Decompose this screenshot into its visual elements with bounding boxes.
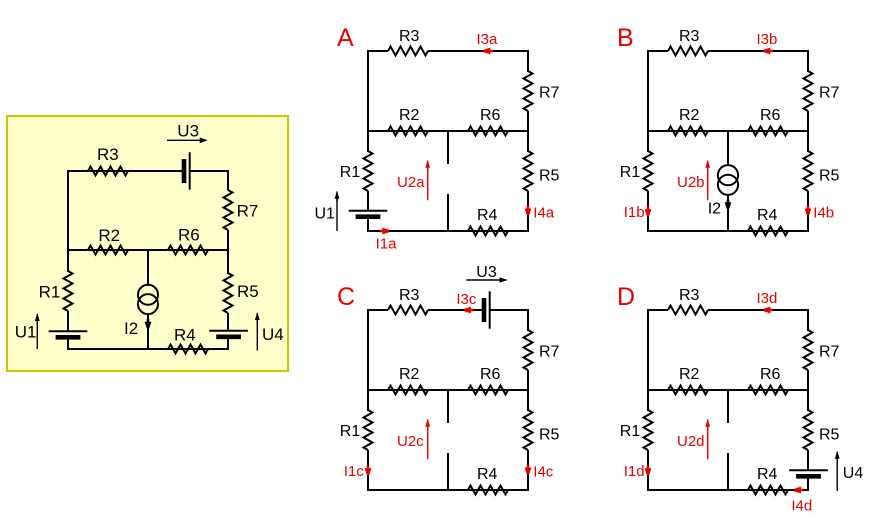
svg-text:R1: R1 — [39, 282, 61, 301]
svg-text:R3: R3 — [679, 28, 700, 45]
battery U3 (C) — [484, 291, 490, 328]
svg-text:R3: R3 — [679, 287, 700, 304]
svg-text:U3: U3 — [177, 122, 199, 141]
resistor R3 (A) — [388, 47, 428, 56]
arrow of U2c voltage — [425, 419, 430, 460]
middle horizontal wire (A) — [368, 130, 528, 132]
current source I2 (main) — [138, 285, 158, 314]
wire from R7 to middle node (C) — [527, 370, 529, 411]
arrow of U1 voltage (main) — [35, 313, 40, 349]
resistor R3 (C) — [388, 306, 428, 315]
bottom horizontal wire (B) — [647, 230, 809, 232]
resistor R5 (C) — [524, 410, 533, 450]
arrow of U1 voltage (A) — [335, 191, 340, 231]
top wire left segment (A) — [368, 50, 388, 52]
top wire right segment (B) — [708, 50, 809, 52]
wire from R7 to middle node (D) — [807, 370, 809, 411]
arrow of current I1d — [645, 466, 652, 476]
bottom horizontal wire (main) — [67, 348, 229, 350]
svg-text:R4: R4 — [757, 466, 778, 483]
resistor R3 (D) — [668, 306, 708, 315]
wire from U1 to bottom-left corner — [67, 340, 69, 350]
resistor R5 (main) — [224, 273, 233, 313]
wire below current source I2 (B) — [727, 195, 729, 231]
svg-text:R1: R1 — [620, 423, 641, 440]
svg-text:I2: I2 — [124, 319, 138, 338]
arrow of current I4d — [794, 487, 804, 494]
bottom horizontal wire (D) — [647, 489, 809, 491]
svg-text:R6: R6 — [178, 225, 200, 244]
arrow of U2d voltage — [705, 419, 710, 460]
right vertical wire from top corner to R7 — [227, 171, 229, 190]
svg-text:U2d: U2d — [677, 433, 705, 450]
svg-text:I1c: I1c — [344, 463, 365, 480]
resistor R1 (main) — [64, 271, 73, 311]
resistor R7 (A) — [524, 71, 533, 111]
resistor R7 (B) — [804, 71, 813, 111]
resistor R5 (B) — [804, 151, 813, 191]
wire from R7 to middle node (B) — [807, 111, 809, 152]
svg-text:R4: R4 — [477, 466, 498, 483]
svg-text:I1b: I1b — [624, 204, 645, 221]
svg-text:R3: R3 — [97, 145, 119, 164]
svg-text:R7: R7 — [539, 84, 560, 101]
middle horizontal wire (main) — [68, 249, 228, 251]
middle horizontal wire (B) — [648, 130, 808, 132]
middle horizontal wire (D) — [648, 389, 808, 391]
wire below current source I2 (main) — [147, 314, 149, 349]
arrow of U2a voltage — [425, 160, 430, 201]
middle branch lower stub, open circuit (C) — [447, 453, 449, 490]
resistor R7 (C) — [524, 330, 533, 370]
wire from R7 to middle node (main) — [227, 230, 229, 274]
svg-text:R6: R6 — [760, 366, 781, 383]
resistor R6 (D) — [748, 386, 788, 395]
svg-text:R7: R7 — [539, 343, 560, 360]
svg-text:R1: R1 — [340, 423, 361, 440]
battery U4 (main) — [209, 331, 248, 337]
battery U1 (main) — [49, 331, 88, 337]
svg-text:I4c: I4c — [533, 463, 554, 480]
resistor R2 (C) — [388, 386, 428, 395]
svg-text:I2: I2 — [708, 201, 721, 218]
wire from R7 to middle node (A) — [527, 111, 529, 152]
svg-text:R3: R3 — [399, 287, 420, 304]
middle branch lower stub, open circuit (D) — [727, 453, 729, 490]
left vertical wire top (C) — [367, 309, 369, 411]
arrow of current I4a — [525, 206, 532, 216]
arrow of current I1c — [365, 466, 372, 476]
svg-text:R6: R6 — [480, 107, 501, 124]
resistor R1 (D) — [644, 410, 653, 450]
resistor R6 (main) — [168, 246, 208, 255]
svg-text:R5: R5 — [819, 168, 840, 185]
wire top-left: node A1 to battery U3 — [68, 170, 184, 172]
right vertical wire bottom (C) — [527, 450, 529, 491]
resistor R1 (B) — [644, 151, 653, 191]
svg-text:U3: U3 — [476, 264, 497, 281]
svg-text:R2: R2 — [679, 366, 700, 383]
svg-text:I3d: I3d — [757, 290, 778, 307]
right vertical wire from top corner to R7 (D) — [807, 309, 809, 331]
wire from U4 to bottom-right corner — [227, 339, 229, 350]
top wire right segment (D) — [708, 309, 809, 311]
resistor R2 (main) — [88, 246, 128, 255]
wire from R5 to battery U4 (main) — [227, 313, 229, 331]
resistor R2 (B) — [668, 127, 708, 136]
resistor R6 (C) — [468, 386, 508, 395]
right vertical wire from top corner to R7 (C) — [527, 309, 529, 331]
top wire right segment (C) — [490, 309, 529, 311]
left vertical wire bottom (D) — [647, 450, 649, 491]
arrow of U2b voltage — [705, 160, 710, 201]
svg-text:R7: R7 — [237, 202, 259, 221]
top wire middle segment (C) — [428, 309, 484, 311]
top wire left segment (D) — [648, 309, 668, 311]
resistor R4 (main) — [168, 345, 208, 354]
svg-text:R7: R7 — [819, 343, 840, 360]
svg-text:U1: U1 — [315, 206, 336, 223]
arrow of U3 voltage (main) — [167, 138, 208, 144]
yellow panel background of main circuit — [7, 116, 288, 371]
left vertical wire top (B) — [647, 50, 649, 152]
right vertical wire from top corner to R7 (A) — [527, 50, 529, 72]
right vertical wire bottom (B) — [807, 191, 809, 232]
arrow of current I4b — [805, 206, 812, 216]
top wire left segment (B) — [648, 50, 668, 52]
battery U4 (D) — [789, 470, 828, 476]
middle branch upper stub, open circuit (C) — [447, 390, 449, 423]
wire from R1 to battery U1 (A) — [367, 191, 369, 211]
arrow of current I1b — [645, 207, 652, 217]
svg-text:I4b: I4b — [813, 204, 834, 221]
arrow of U3 voltage (C) — [466, 277, 507, 283]
resistor R4 (B) — [748, 227, 788, 236]
wire from U3 to top-right corner — [190, 170, 229, 172]
left vertical wire bottom (C) — [367, 450, 369, 491]
resistor R4 (C) — [468, 486, 508, 495]
middle branch upper stub, open circuit (A) — [447, 131, 449, 164]
wire from U4 to bottom-right corner (D) — [807, 479, 809, 491]
resistor R5 (A) — [524, 151, 533, 191]
arrow of current I2 (main) — [145, 319, 152, 329]
top wire right segment (A) — [428, 50, 529, 52]
svg-text:U4: U4 — [843, 465, 864, 482]
wire from U1 to bottom-left corner (A) — [367, 219, 369, 232]
middle branch wire from node to current source I2 (main) — [147, 250, 149, 286]
arrow of current I3d — [764, 307, 774, 314]
svg-text:U1: U1 — [15, 322, 37, 341]
svg-text:R1: R1 — [340, 164, 361, 181]
resistor R2 (A) — [388, 127, 428, 136]
svg-text:C: C — [337, 283, 355, 311]
svg-text:I1a: I1a — [376, 236, 398, 253]
svg-text:R2: R2 — [399, 366, 420, 383]
battery U3 (main) — [184, 152, 190, 189]
resistor R7 (main) — [224, 190, 233, 230]
left vertical wire top (A) — [367, 50, 369, 152]
resistor R6 (B) — [748, 127, 788, 136]
wire from R1 to battery U1 (main) — [67, 311, 69, 331]
svg-text:A: A — [337, 24, 354, 52]
svg-text:I3b: I3b — [757, 31, 778, 48]
resistor R5 (D) — [804, 410, 813, 450]
svg-text:U4: U4 — [262, 325, 284, 344]
svg-text:R2: R2 — [98, 226, 120, 245]
resistor R1 (A) — [364, 151, 373, 191]
svg-text:R6: R6 — [760, 107, 781, 124]
arrow of current I3b — [764, 48, 774, 55]
wire from R5 to battery U4 (D) — [807, 450, 809, 470]
svg-text:I4a: I4a — [533, 204, 555, 221]
resistor R3 (main) — [88, 167, 128, 176]
svg-text:I3c: I3c — [456, 291, 477, 308]
svg-text:R4: R4 — [174, 326, 196, 345]
left vertical wire bottom (B) — [647, 191, 649, 232]
resistor R4 (D) — [748, 486, 788, 495]
svg-text:R4: R4 — [477, 207, 498, 224]
svg-text:R5: R5 — [237, 282, 259, 301]
arrow of current I1a — [380, 228, 390, 235]
resistor R1 (C) — [364, 410, 373, 450]
svg-text:D: D — [617, 283, 635, 311]
resistor R6 (A) — [468, 127, 508, 136]
arrow of U4 voltage (D) — [835, 451, 840, 491]
bottom horizontal wire (A) — [367, 230, 529, 232]
middle branch upper stub, open circuit (D) — [727, 390, 729, 423]
svg-text:R4: R4 — [757, 207, 778, 224]
svg-text:I3a: I3a — [477, 31, 499, 48]
bottom horizontal wire (C) — [367, 489, 529, 491]
arrow of current I3c — [464, 307, 474, 314]
svg-text:U2c: U2c — [397, 433, 424, 450]
svg-text:R2: R2 — [679, 107, 700, 124]
battery U1 (A) — [349, 211, 388, 217]
svg-text:R7: R7 — [819, 84, 840, 101]
svg-text:B: B — [617, 24, 634, 52]
resistor R2 (D) — [668, 386, 708, 395]
right vertical wire from top corner to R7 (B) — [807, 50, 809, 72]
top wire left segment (C) — [368, 309, 388, 311]
current source I2 (B) — [718, 165, 738, 195]
svg-text:R1: R1 — [620, 164, 641, 181]
resistor R3 (B) — [668, 47, 708, 56]
svg-text:R5: R5 — [539, 427, 560, 444]
svg-text:R5: R5 — [819, 427, 840, 444]
left vertical wire top (D) — [647, 309, 649, 411]
middle branch lower stub, open circuit (A) — [447, 194, 449, 231]
svg-text:R2: R2 — [399, 107, 420, 124]
right vertical wire bottom (A) — [527, 191, 529, 232]
resistor R7 (D) — [804, 330, 813, 370]
arrow of U4 voltage (main) — [255, 312, 260, 351]
middle horizontal wire (C) — [368, 389, 528, 391]
middle branch wire to current source I2 (B) — [727, 131, 729, 166]
svg-text:R3: R3 — [399, 28, 420, 45]
svg-text:I1d: I1d — [624, 463, 645, 480]
arrow of current I4c — [525, 465, 532, 475]
resistor R4 (A) — [468, 227, 508, 236]
svg-text:U2b: U2b — [677, 174, 705, 191]
svg-text:R6: R6 — [480, 366, 501, 383]
arrow of current I3a — [484, 48, 494, 55]
left vertical wire from top corner to middle node — [67, 170, 69, 272]
arrow of current I2 (B) — [725, 200, 732, 210]
svg-text:I4d: I4d — [791, 498, 812, 515]
svg-text:U2a: U2a — [397, 174, 425, 191]
svg-text:R5: R5 — [539, 168, 560, 185]
